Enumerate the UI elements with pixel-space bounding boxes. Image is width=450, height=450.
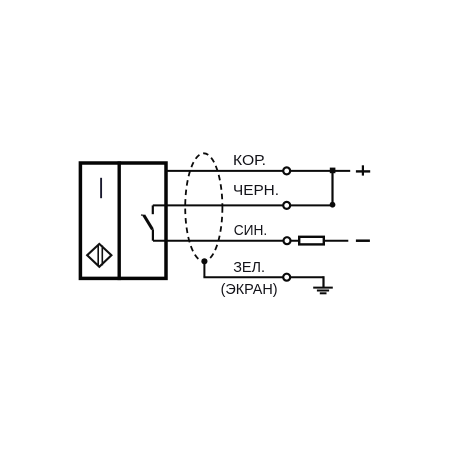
- switch blade tick: [141, 214, 144, 216]
- switch top stub: [152, 205, 154, 214]
- wire CHERN (black) horizontal: [153, 204, 333, 206]
- minus symbol: [356, 239, 370, 242]
- terminal circle ZEL: [283, 274, 290, 281]
- ground symbol: [313, 288, 333, 294]
- cable sheath ellipse (dashed): [185, 153, 222, 261]
- shield junction dot at cable bottom: [201, 258, 207, 264]
- svg-text:СИН.: СИН.: [234, 222, 268, 239]
- terminal circle CHERN: [283, 202, 290, 209]
- switch blade: [144, 215, 153, 229]
- sensor internal divider: [117, 161, 120, 280]
- wire drop to ground: [322, 276, 324, 287]
- sensor body outline: [80, 163, 166, 278]
- wire KOR (brown) horizontal: [166, 170, 350, 172]
- inductive sensor diamond symbol: [87, 244, 111, 267]
- svg-text:КОР.: КОР.: [233, 152, 266, 169]
- marker I: [100, 178, 102, 198]
- junction on CHERN line (round dot): [330, 202, 336, 208]
- wire ZEL horizontal: [203, 276, 323, 278]
- plus symbol: [356, 165, 370, 175]
- vertical wire joining KOR and CHERN junctions: [331, 171, 333, 205]
- wire SIN (blue) horizontal, left part: [153, 240, 299, 242]
- terminal circle KOR: [283, 167, 290, 174]
- wire ZEL vertical from shield dot: [203, 261, 205, 277]
- resistor (load) on SIN line: [299, 237, 324, 245]
- switch bottom stub: [152, 229, 154, 240]
- junction on KOR line (square dot): [330, 168, 336, 174]
- svg-text:ЧЕРН.: ЧЕРН.: [233, 182, 279, 199]
- svg-text:ЗЕЛ.: ЗЕЛ.: [233, 259, 265, 276]
- terminal circle SIN: [284, 237, 291, 244]
- wire SIN right of resistor: [325, 240, 349, 242]
- svg-text:(ЭКРАН): (ЭКРАН): [221, 281, 278, 298]
